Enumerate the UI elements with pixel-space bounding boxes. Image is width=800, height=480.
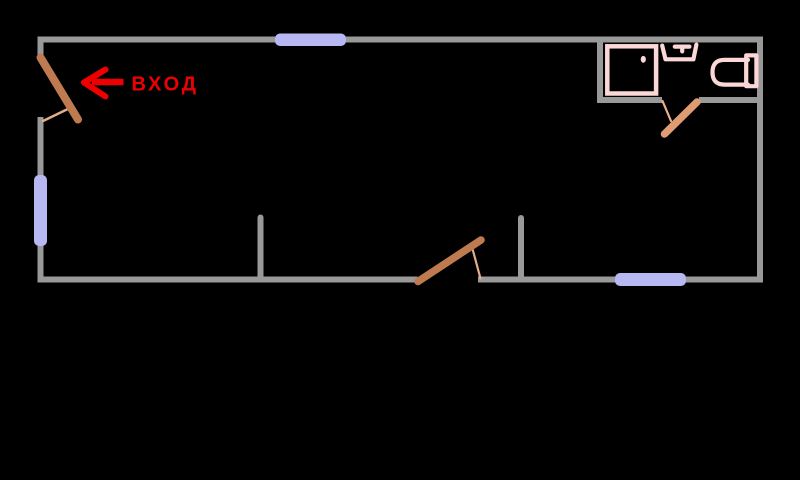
door bathroom swing line bbox=[663, 101, 672, 121]
entrance arrow shaft bbox=[92, 79, 124, 86]
wall left lower segment bbox=[38, 117, 44, 283]
entrance arrow upper barb bbox=[84, 70, 106, 83]
wall left upper stub bbox=[38, 37, 44, 56]
door middle leaf bbox=[418, 240, 481, 282]
entrance arrow lower barb bbox=[84, 83, 106, 97]
wall right bbox=[757, 37, 763, 283]
sink faucet bbox=[675, 47, 690, 52]
toilet tank bbox=[746, 55, 756, 86]
shower tray bbox=[607, 46, 656, 93]
wall interior stub B bbox=[518, 218, 524, 277]
wall bottom right segment bbox=[478, 277, 763, 283]
window left bbox=[34, 175, 47, 246]
door bathroom leaf bbox=[665, 102, 698, 134]
wall bathroom bottom right segment bbox=[699, 97, 762, 103]
window bottom bbox=[615, 273, 686, 286]
wall bathroom bottom left segment bbox=[597, 97, 662, 103]
door middle swing line bbox=[472, 247, 481, 279]
wall interior stub A bbox=[258, 218, 264, 278]
window top bbox=[275, 34, 346, 47]
svg-text:ВХОД: ВХОД bbox=[132, 74, 199, 96]
sink bowl bbox=[662, 45, 696, 60]
wall top bbox=[38, 37, 763, 43]
wall bathroom divider bbox=[597, 39, 603, 102]
door entrance swing line bbox=[43, 107, 72, 121]
toilet bowl bbox=[713, 60, 749, 85]
wall bottom left segment bbox=[38, 277, 418, 283]
door entrance leaf bbox=[41, 58, 79, 120]
shower drain dot bbox=[641, 56, 646, 63]
